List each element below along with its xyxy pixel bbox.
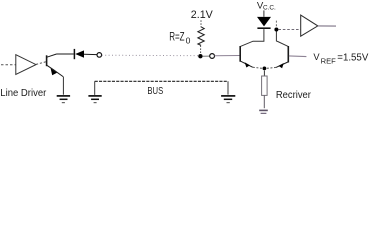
diode D1 (cathode bar + triangle pointing left): [74, 49, 84, 59]
label Recriver: [276, 90, 312, 101]
ground (bus right): [221, 96, 235, 103]
junction dot emitters: [263, 67, 267, 71]
label BUS: [147, 85, 163, 97]
op-amp U1 Line Driver buffer triangle: [16, 55, 36, 75]
svg-text:REF: REF: [321, 56, 337, 65]
svg-text:R=Z: R=Z: [169, 30, 185, 44]
wire driver input (dashed): [1, 64, 16, 66]
node terminal circle (receiver side): [210, 54, 215, 59]
wire Q1 collector to diode: [57, 53, 74, 55]
junction dot receiver output: [274, 28, 278, 32]
wire buffer output: [318, 25, 336, 27]
transistor Q1 driver output: [47, 54, 64, 77]
wire circle to Q2 base: [215, 55, 240, 57]
wire to Q3 collector: [276, 41, 288, 46]
wire emitters to load resistor: [263, 71, 265, 77]
ground (bus left): [88, 96, 101, 103]
svg-text:2.1V: 2.1V: [191, 9, 214, 21]
svg-text:Recriver: Recriver: [276, 90, 312, 101]
wire VCC stub to dot: [275, 21, 277, 42]
wire dot to terminal circle: [203, 55, 210, 57]
op-amp U2 receiver buffer triangle: [301, 15, 318, 36]
wire diode cathode to Q2 collector: [241, 29, 264, 46]
wire dot to buffer input (dashed): [278, 29, 300, 31]
wire diode anode to terminal: [84, 53, 97, 55]
label VREF = 1.55V: [313, 52, 368, 65]
svg-text:C.C.: C.C.: [263, 5, 276, 12]
svg-text:0: 0: [186, 36, 191, 46]
ground (driver emitter): [57, 96, 70, 103]
label 2.1V: [191, 9, 214, 21]
svg-text:BUS: BUS: [147, 85, 163, 97]
label VCC: [257, 1, 276, 12]
svg-text:=1.55V: =1.55V: [337, 52, 368, 63]
svg-text:Line Driver: Line Driver: [0, 88, 46, 99]
wire resistor bottom lead (dashed): [200, 45, 202, 55]
bus return line (dashed) with BUS label: [95, 81, 228, 95]
transistor Q2 (receiver left): [240, 46, 262, 68]
wire resistor to ground: [263, 96, 265, 109]
diode D2 (VCC clamp, pointing down): [257, 17, 271, 28]
transistor Q3 (receiver right): [267, 46, 289, 68]
label Line Driver: [0, 88, 46, 99]
resistor R termination zigzag: [198, 27, 204, 46]
label R=Z0: [169, 30, 190, 46]
wire bus top conductor (dotted): [102, 54, 198, 57]
wire VCC to diode anode: [263, 10, 265, 16]
ground (receiver load): [259, 110, 268, 113]
wire Q1 emitter down: [62, 77, 64, 95]
wire Q3 base to VREF: [289, 55, 307, 58]
node terminal circle (driver side): [97, 53, 102, 58]
resistor R load (box): [262, 76, 268, 95]
wire resistor top lead (dashed): [200, 20, 202, 27]
junction dot bus/terminator: [198, 54, 202, 58]
svg-text:V: V: [313, 52, 320, 62]
wire apex to Q1 base (dashed): [36, 62, 46, 65]
